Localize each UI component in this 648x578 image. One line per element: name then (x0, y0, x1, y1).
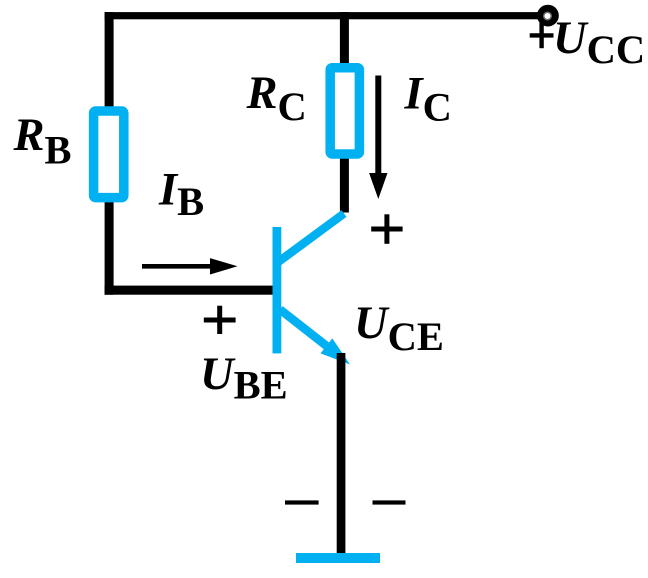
svg-text:IB: IB (158, 164, 204, 224)
wire collector vertical (340, 12, 349, 212)
svg-text:RB: RB (13, 110, 72, 173)
svg-text:UCE: UCE (354, 298, 444, 359)
plus sign of +Ucc (530, 23, 554, 49)
ground (296, 553, 380, 563)
svg-text:IC: IC (404, 69, 452, 130)
transistor Q1 base bar (273, 227, 282, 353)
terminal node +Ucc (537, 5, 559, 27)
current arrow IC (369, 76, 387, 200)
minus sign of Ube (285, 500, 319, 504)
current arrow IB (142, 258, 238, 274)
svg-text:UCC: UCC (553, 13, 645, 72)
wire emitter vertical (337, 353, 346, 555)
plus sign of Ube (204, 306, 236, 334)
wire base horizontal (105, 286, 274, 295)
plus sign of Uce (371, 214, 402, 244)
resistor RC (330, 68, 359, 154)
wire left vertical (base branch) (105, 12, 114, 295)
resistor RB (94, 111, 124, 198)
svg-text:RC: RC (246, 68, 307, 129)
transistor Q1 collector lead (278, 214, 345, 263)
transistor Q1 emitter lead with arrow (280, 310, 350, 365)
minus sign of Uce (373, 500, 406, 504)
svg-text:UBE: UBE (200, 349, 288, 408)
wire top rail (105, 12, 538, 19)
